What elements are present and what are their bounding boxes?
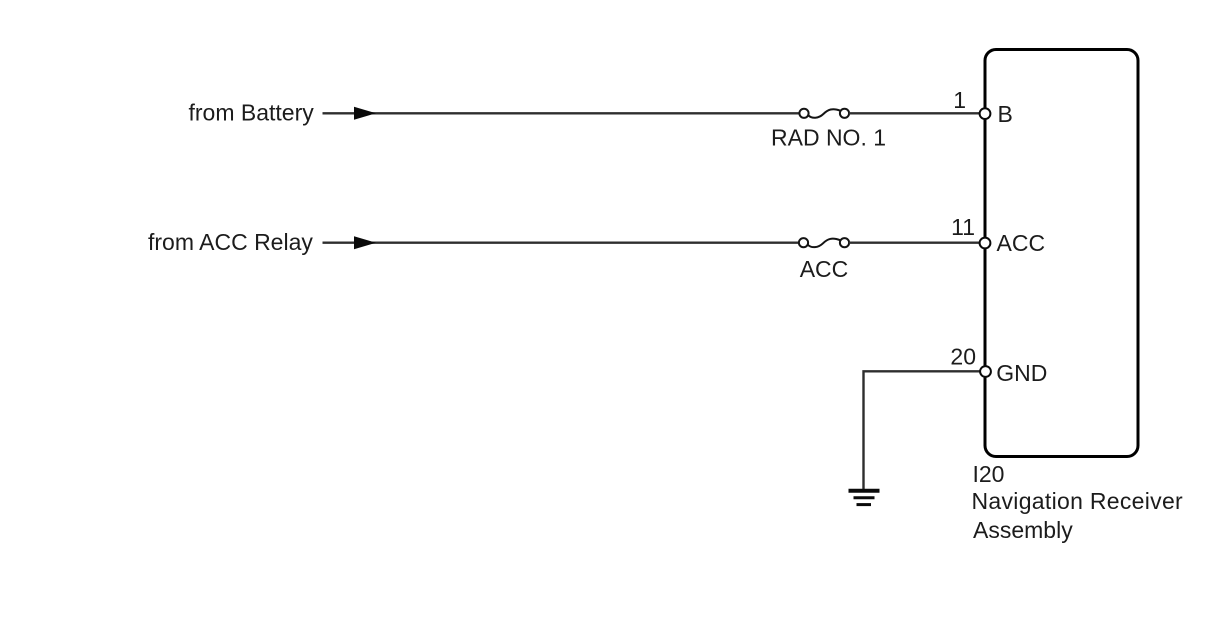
ground symbol [849, 491, 880, 505]
svg-text:Assembly: Assembly [973, 517, 1073, 543]
svg-text:1: 1 [953, 87, 966, 113]
wire from ACC Relay to fuse ACC [323, 241, 800, 243]
svg-text:from Battery: from Battery [189, 100, 315, 126]
wire fuse to pin 11 [849, 241, 980, 243]
pin 1 terminal circle [980, 108, 991, 119]
arrow on battery wire [354, 107, 376, 120]
svg-text:RAD NO. 1: RAD NO. 1 [771, 125, 886, 151]
fuse RAD NO. 1 [799, 109, 849, 118]
pin 11 terminal circle [980, 238, 991, 249]
wire fuse to pin 1 [849, 112, 980, 114]
svg-text:ACC: ACC [800, 256, 849, 282]
arrow on ACC wire [354, 236, 376, 249]
svg-text:ACC: ACC [997, 230, 1046, 256]
connector box I20 Navigation Receiver Assembly [985, 50, 1138, 457]
wire from Battery to fuse RAD NO. 1 [323, 112, 800, 114]
svg-text:Navigation Receiver: Navigation Receiver [972, 488, 1184, 514]
pin 20 terminal circle [980, 366, 991, 377]
svg-text:B: B [998, 101, 1013, 127]
svg-text:from ACC Relay: from ACC Relay [148, 229, 313, 255]
svg-text:GND: GND [996, 360, 1047, 386]
wire pin 20 to ground [864, 371, 981, 489]
svg-text:20: 20 [950, 344, 976, 370]
svg-text:11: 11 [951, 214, 975, 240]
svg-text:I20: I20 [973, 461, 1005, 487]
fuse ACC [799, 238, 849, 247]
